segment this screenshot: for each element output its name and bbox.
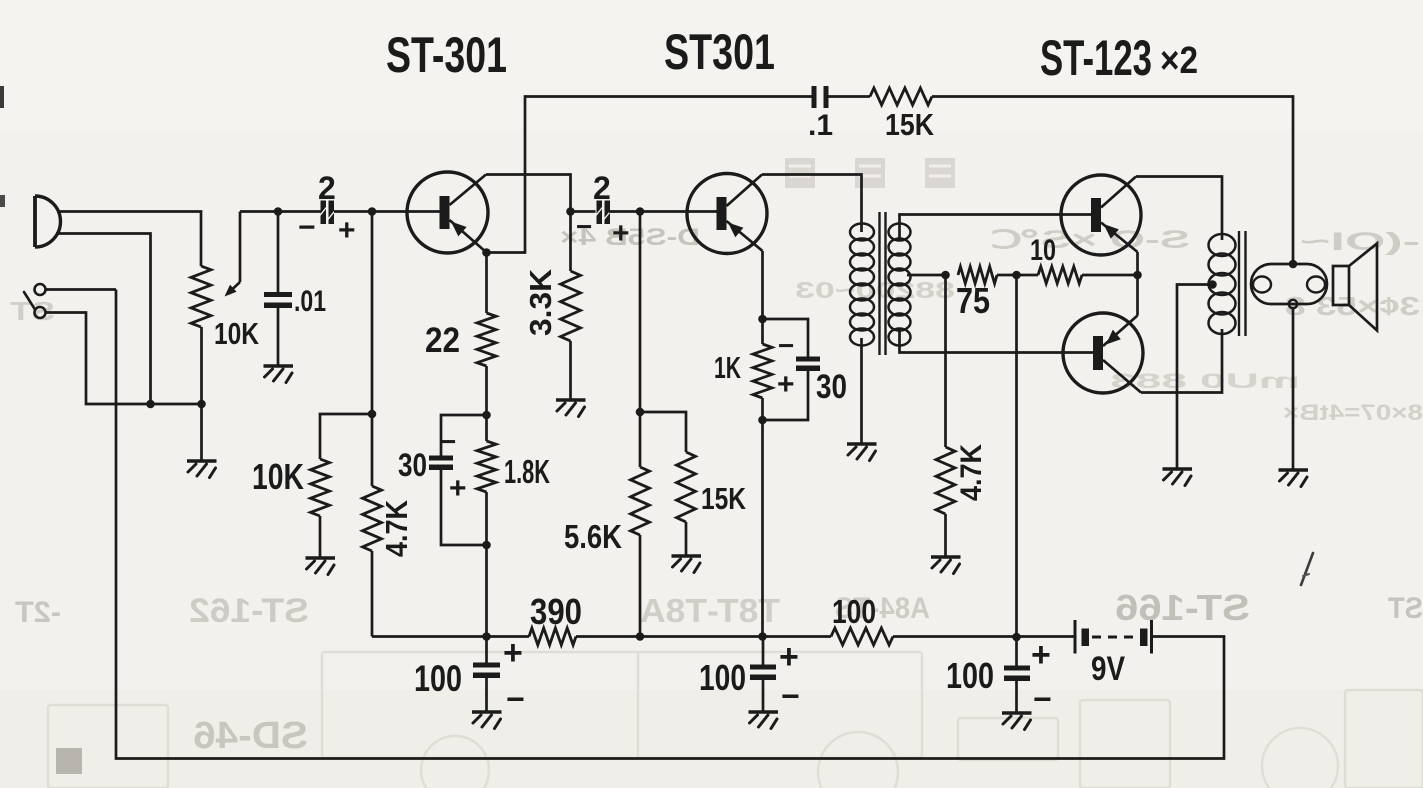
junction Q2 base divider (636, 207, 645, 216)
wire jack lower to bottom node (46, 313, 202, 405)
wire common emitter riser (1136, 252, 1139, 316)
svg-text:+: + (449, 472, 467, 505)
junction rail/5.6K (636, 632, 645, 641)
resistor R12 4.7K (output bias) (936, 447, 955, 514)
ground G2 below C1 (264, 366, 294, 383)
svg-text:8×07=4tB×: 8×07=4tB× (1283, 400, 1423, 425)
wire 22 to 1.8K node (485, 366, 488, 441)
label 10K (R1) (252, 456, 304, 497)
wire 15K branch (640, 412, 686, 452)
junction emitters common (1133, 271, 1142, 280)
wire down to 3.3K (569, 212, 572, 272)
wire emitter to feedback riser (487, 97, 812, 253)
wire feedback to output (932, 97, 1293, 265)
label 9V (1091, 650, 1125, 688)
wire 30uF branch top (441, 415, 487, 456)
svg-text:.01: .01 (294, 285, 326, 318)
wire Q1 collector to 3.3K top (486, 175, 571, 212)
wire rail mid1 (576, 635, 831, 638)
label minus C5 (778, 330, 794, 361)
wire T1 secondary top to Q3 base (900, 215, 1092, 241)
svg-text:−: − (778, 330, 794, 361)
svg-text:+: + (612, 217, 630, 250)
svg-text:9V: 9V (1091, 650, 1125, 688)
junction .01 branch (274, 207, 283, 216)
junction rail/Q2-emitter-line (758, 632, 767, 641)
label 15K (feedback) (885, 107, 935, 142)
transformer T1 secondary winding (889, 224, 911, 346)
capacitor C8 100 (750, 665, 776, 681)
ground G7 below T1 (847, 444, 877, 461)
jack lever stroke (24, 292, 35, 310)
junction pot-bottom node (197, 400, 206, 409)
wire bias riser upper (371, 212, 374, 487)
label plus C7 (503, 634, 523, 672)
label 75 (956, 280, 990, 321)
ground G8 below R12 (931, 557, 961, 574)
label 3.3K (523, 268, 558, 336)
battery BT1 9V (1075, 620, 1152, 654)
wire 3.3K to ground (569, 341, 572, 400)
svg-text:1K: 1K (714, 350, 741, 385)
transistor Q1 ST-301 (407, 172, 488, 253)
label plus C8 (779, 638, 799, 676)
resistor R1 10K (Q1 bias to ground) (311, 459, 330, 516)
svg-text:SD-46: SD-46 (193, 715, 308, 757)
transistor Q4 ST-123 (lower) (1063, 313, 1143, 393)
svg-text:+: + (779, 638, 799, 676)
svg-text:100: 100 (699, 657, 746, 698)
ground G1 below pot (187, 461, 217, 478)
label 15K (R7) (701, 481, 746, 516)
wire 5.6K riser (639, 212, 642, 468)
label .1 (808, 109, 833, 142)
resistor R14 100 (831, 628, 893, 645)
resistor R8 1K (Q2 emitter) (753, 344, 772, 398)
svg-text:10K: 10K (252, 456, 304, 497)
svg-text:22: 22 (425, 321, 460, 360)
wire jack upper to ground rail riser (46, 288, 117, 291)
svg-text:88200~03: 88200~03 (795, 277, 955, 303)
wire Q1 emitter down (485, 253, 488, 314)
wire battery to right riser / bottom return (116, 290, 1224, 759)
svg-text:−: − (440, 426, 456, 457)
wire C9 drop (1015, 637, 1018, 713)
capacitor C9 100 (1004, 666, 1030, 682)
ground G9 below C8 (749, 712, 779, 729)
label 5.6K (564, 518, 622, 555)
wiper arrow (225, 282, 241, 297)
svg-text:2: 2 (593, 170, 611, 206)
wiper arm riser (239, 212, 242, 283)
wire T1 center tap (907, 274, 946, 277)
junction Q2 emitter net bottom (758, 416, 767, 425)
svg-text:3¢×53 8: 3¢×53 8 (1285, 291, 1420, 321)
resistor R10 75 (958, 267, 997, 284)
wire between C6 and R9 (829, 95, 871, 98)
label minus C8 (781, 678, 800, 714)
speaker SP (1333, 244, 1377, 331)
capacitor C1 .01 (264, 292, 292, 308)
svg-text:S-O ×S℃: S-O ×S℃ (990, 226, 1190, 254)
resistor R9 15K feedback (870, 88, 932, 105)
wire riser to supply rail (1015, 275, 1018, 637)
label x2 (1160, 40, 1198, 82)
svg-text:75: 75 (956, 280, 990, 321)
svg-text:100: 100 (832, 593, 876, 630)
transformer T1 core (880, 212, 886, 355)
resistor R6 5.6K (631, 467, 650, 535)
label plus C2 (338, 214, 356, 247)
transistor Q3 ST-123 (upper) (1061, 175, 1141, 255)
wire mic bottom lead (56, 234, 151, 405)
junction rail/C9 (1012, 633, 1021, 642)
junction mic-bottom / node (146, 400, 155, 409)
label plus C4 (612, 217, 630, 250)
junction Q1 emitter (482, 248, 491, 257)
junction emitter network top (482, 411, 491, 420)
wire T2 center tap to ground (1177, 285, 1213, 470)
svg-text:1.8K: 1.8K (504, 453, 550, 490)
junction rail/C7 (482, 632, 491, 641)
wire supply rail left (372, 635, 529, 638)
label 4.7K (R2) (379, 499, 414, 557)
wire Q2 emitter down (761, 251, 764, 344)
svg-text:×2: ×2 (1160, 40, 1198, 82)
label 1.8K (504, 453, 550, 490)
svg-text:ST-301: ST-301 (386, 27, 507, 83)
junction collector/C4/3.3K (566, 207, 575, 216)
junction bias divider (368, 207, 377, 216)
svg-text:15K: 15K (701, 481, 746, 516)
capacitor C2 2uF input coupling (320, 201, 336, 225)
resistor R11 10 (1038, 267, 1082, 284)
label 100 (C7) (414, 658, 462, 699)
svg-text:10K: 10K (214, 316, 259, 351)
wire collector junction to C4 (571, 210, 596, 213)
label minus C9 (1033, 681, 1052, 717)
label 100 (R14) (832, 593, 876, 630)
ground G4 below R4 (556, 400, 586, 417)
wire 30uF#2 branch bottom (763, 371, 809, 420)
svg-text:ST: ST (1388, 592, 1423, 625)
junction 15K branch (636, 408, 645, 417)
transformer T2 core (1239, 231, 1246, 336)
transformer T2 secondary (1251, 264, 1327, 304)
label plus C5 (777, 368, 795, 401)
junction 75/10/rail riser (1012, 271, 1021, 280)
junction T2 center tap (1208, 280, 1217, 289)
label 2 (C4) (593, 170, 611, 206)
wire 1.8K to lower node (485, 492, 488, 637)
ground G5 below R7 (672, 556, 702, 573)
wire 10 to emitters (1082, 274, 1138, 277)
wire 4.7K riser (944, 275, 947, 447)
svg-text:−: − (576, 211, 592, 242)
svg-text:ST-162: ST-162 (189, 592, 309, 630)
node secondary bottom (1289, 300, 1297, 308)
wire C8 drop (762, 637, 765, 713)
wire main line pot area (240, 210, 321, 213)
wire Q2 collector to T1 primary (762, 175, 862, 233)
junction emitter network bottom (482, 541, 491, 550)
wire T1 primary bottom to ground (860, 338, 863, 444)
label 1K (714, 350, 741, 385)
ground G6 below C7 (472, 712, 502, 729)
label 390 (530, 591, 582, 632)
resistor R13 390 (529, 628, 576, 645)
svg-text:+: + (777, 368, 795, 401)
label minus C7 (506, 681, 525, 717)
capacitor C6 .1 feedback (812, 86, 829, 108)
label minus C3 (440, 426, 456, 457)
wire 30uF#2 branch top (763, 319, 809, 357)
junction feedback tap (1289, 260, 1298, 269)
wire R7 to ground (685, 522, 688, 556)
svg-text:-(OI~: -(OI~ (1300, 228, 1420, 256)
label ST-123 (1040, 30, 1152, 86)
junction Q2 emitter net top (758, 315, 767, 324)
input jack J1 lower contact (35, 307, 46, 318)
svg-text:−: − (781, 678, 800, 714)
label 100 (C9) (946, 655, 994, 696)
resistor R7 15K (Q2 bias) (677, 452, 696, 522)
resistor R3 22 (Q1 emitter) (477, 313, 496, 366)
wire 1K to bottom (761, 398, 764, 637)
wire C7 drop (485, 637, 488, 713)
svg-text:100: 100 (946, 655, 994, 696)
label .01 (294, 285, 326, 318)
label 100 (C8) (699, 657, 746, 698)
svg-text:−: − (1033, 681, 1052, 717)
label ST-301 (386, 27, 507, 83)
svg-text:4.7K: 4.7K (379, 499, 414, 557)
junction center tap / 4.7K (941, 271, 950, 280)
wire R2 to rail (371, 551, 374, 637)
input jack J1 upper contact (35, 284, 46, 295)
wire secondary bottom to ground (1292, 308, 1295, 470)
transistor Q2 ST301 (687, 174, 767, 254)
wire R12 to ground (944, 514, 947, 557)
label minus C2 (298, 211, 316, 244)
svg-text:5.6K: 5.6K (564, 518, 622, 555)
label 30 (C3) (398, 447, 427, 483)
svg-text:4.7K: 4.7K (955, 444, 988, 501)
wire Q4 collector to T2 primary bottom (1141, 329, 1222, 393)
resistor R4 3.3K (Q1 load) (561, 271, 581, 341)
svg-text:ST301: ST301 (664, 24, 775, 80)
svg-text:ST-123: ST-123 (1040, 30, 1152, 86)
label 10 (1030, 234, 1056, 267)
wire .01 to ground (277, 308, 280, 367)
label 2 (C2) (318, 170, 336, 206)
svg-text:ST-166: ST-166 (1115, 587, 1250, 628)
svg-text:30: 30 (816, 368, 847, 406)
resistor R5 1.8K (477, 441, 496, 492)
svg-text:.1: .1 (808, 109, 833, 142)
label 10K (pot) (214, 316, 259, 351)
svg-text:+: + (338, 214, 356, 247)
svg-text:3.3K: 3.3K (523, 268, 558, 336)
label 4.7K (R12) (955, 444, 988, 501)
ground G10 below C9 (1002, 713, 1032, 730)
svg-text:2: 2 (318, 170, 336, 206)
wire 5.6K to rail (639, 535, 642, 637)
label plus C3 (449, 472, 467, 505)
wire C2 to Q1 base (334, 210, 440, 213)
svg-text:−: − (298, 211, 316, 244)
wire pot bottom + ground stub (200, 327, 203, 461)
svg-text:15K: 15K (885, 107, 935, 142)
wire 10K branch (320, 414, 372, 459)
svg-text:390: 390 (530, 591, 582, 632)
wire 75 to 10 (997, 274, 1038, 277)
svg-text:−: − (506, 681, 525, 717)
label 30 (C5) (816, 368, 847, 406)
microphone MIC (earphone element) (35, 196, 60, 247)
junction 10K branch (368, 410, 377, 419)
wire T1 secondary bottom to Q4 base (900, 330, 1094, 353)
wire R1 to ground (319, 516, 322, 558)
svg-text:ST: ST (10, 296, 55, 326)
wire mic top lead to volume pot (57, 212, 201, 267)
svg-text:-2T: -2T (15, 596, 61, 629)
transformer T1 primary winding (850, 224, 874, 346)
ground G3 below R1 (306, 558, 336, 575)
svg-text:T8T-T8A: T8T-T8A (640, 592, 780, 629)
label plus C9 (1031, 636, 1051, 674)
capacitor C3 30 (emitter bypass) (429, 456, 453, 471)
label ST301 (664, 24, 775, 80)
resistor R2 4.7K (Q1 bias lower) (363, 486, 382, 551)
label 22 (425, 321, 460, 360)
svg-text:100: 100 (414, 658, 462, 699)
capacitor C7 100 (473, 663, 500, 679)
transformer T2 primary winding (1209, 234, 1236, 334)
wire Q3 collector to T2 primary top (1136, 177, 1222, 241)
wire .01 branch upper (277, 212, 280, 293)
wire rail mid2 (893, 635, 1074, 638)
svg-text:+: + (1031, 636, 1051, 674)
wire 30uF branch bottom (441, 470, 487, 545)
ground G12 below secondary (1279, 470, 1309, 487)
svg-text:10: 10 (1030, 234, 1056, 267)
label minus C4 (576, 211, 592, 242)
capacitor C5 30 (Q2 bypass) (796, 357, 820, 372)
potentiometer VR1 10K (191, 266, 211, 327)
svg-text:30: 30 (398, 447, 427, 483)
capacitor C4 2uF coupling (596, 201, 612, 225)
wire C4 to Q2 base (609, 210, 717, 213)
svg-text:+: + (503, 634, 523, 672)
ground G11 below T2 CT (1163, 469, 1193, 486)
